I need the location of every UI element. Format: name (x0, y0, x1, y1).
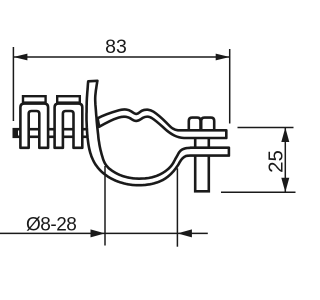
clamp jaw 1 top cap (23, 96, 46, 102)
arrowhead down (dim 25) (281, 178, 289, 193)
arrowhead at left clamp opening (dim diameter) (91, 229, 106, 237)
clamp jaw 1 (inverted U clip) (20, 104, 48, 148)
extension line right (dim 83) (229, 49, 231, 124)
extension line left (dim 83) (12, 47, 14, 121)
svg-text:Ø8-28: Ø8-28 (26, 214, 76, 235)
extension line top (dim 25) (238, 127, 294, 129)
dimension line 25 (284, 128, 286, 193)
extension line right (dim diameter 8-28) (176, 168, 178, 246)
svg-text:25: 25 (264, 150, 287, 173)
rail (horizontal bar through clamp jaws) (13, 128, 90, 138)
extension line bottom (dim 25) (221, 191, 296, 193)
arrowhead left (dim 83) (13, 54, 27, 61)
clamp jaw 2 (inverted U clip) (55, 104, 83, 148)
arrowhead up (dim 25) (281, 128, 289, 143)
upper strap (wavy spring band + upper strip) (98, 110, 227, 138)
arrowhead at right clamp opening (dim diameter) (177, 229, 192, 237)
main band (slanted arm + saddle + lower strip) (87, 81, 229, 185)
bolt shaft (vertical, right side) (195, 135, 209, 191)
dimension line 83 (13, 56, 229, 58)
clamp jaw 2 top cap (57, 96, 80, 102)
extension line left (dim diameter 8-28) (104, 166, 106, 246)
arrowhead right (dim 83) (216, 54, 230, 61)
svg-text:83: 83 (105, 36, 127, 58)
dimension/leader line diameter 8-28 (0, 232, 208, 234)
nut on top of upper strap (189, 118, 214, 132)
